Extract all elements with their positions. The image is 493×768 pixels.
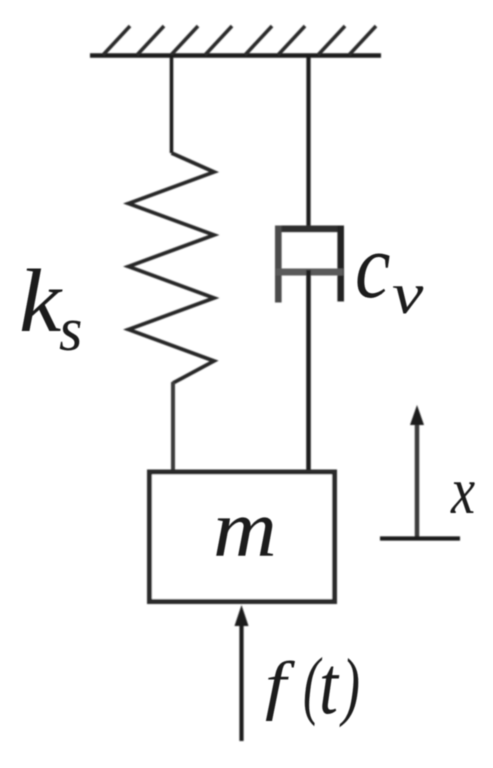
svg-text:t: t (319, 641, 340, 731)
svg-text:m: m (213, 484, 277, 574)
svg-text:x: x (450, 455, 475, 528)
force arrow f(t) head (235, 605, 249, 626)
wire spring top rod (170, 55, 174, 153)
ground ceiling line (90, 53, 381, 58)
wire damper bottom rod (306, 270, 311, 471)
ground hatch 1 (103, 26, 130, 55)
x axis arrow shaft (415, 420, 420, 539)
ground hatch 8 (349, 26, 376, 55)
ground hatch 4 (205, 26, 232, 55)
force arrow f(t) shaft (239, 618, 243, 741)
ground hatch 2 (137, 26, 164, 55)
ground hatch 5 (245, 26, 272, 55)
ground hatch 7 (318, 26, 345, 55)
ground hatch 6 (278, 26, 305, 55)
svg-text:v: v (392, 262, 424, 326)
svg-text:): ) (339, 644, 360, 728)
wire damper top rod (306, 55, 310, 230)
svg-text:s: s (59, 295, 82, 364)
svg-text:c: c (355, 215, 390, 317)
x axis arrow head (410, 405, 424, 425)
ground hatch 3 (171, 26, 198, 55)
damper cylinder top cap (275, 226, 344, 233)
wire spring bottom rod (171, 382, 175, 471)
damper piston plate (276, 269, 343, 276)
svg-text:k: k (19, 251, 63, 350)
damper cylinder right wall (337, 226, 344, 302)
mass block m (150, 472, 335, 602)
damper cylinder left wall (275, 226, 282, 303)
x axis base line (380, 536, 460, 540)
spring ks zigzag (129, 153, 215, 383)
